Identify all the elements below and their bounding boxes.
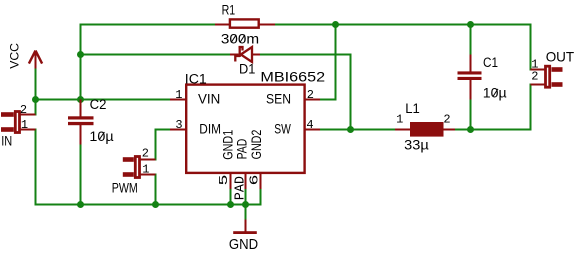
svg-text:IC1: IC1: [185, 72, 207, 87]
svg-text:2: 2: [307, 88, 314, 102]
svg-text:C2: C2: [90, 97, 107, 112]
svg-text:6: 6: [247, 175, 261, 186]
svg-text:D1: D1: [239, 61, 255, 76]
svg-text:DIM: DIM: [199, 122, 221, 137]
svg-text:300m: 300m: [221, 32, 259, 47]
svg-text:1: 1: [142, 162, 149, 176]
svg-text:2: 2: [142, 146, 149, 160]
svg-text:2: 2: [20, 103, 27, 117]
svg-text:5: 5: [217, 175, 231, 186]
svg-text:33µ: 33µ: [404, 137, 429, 152]
svg-text:PAD: PAD: [232, 176, 248, 200]
svg-text:IN: IN: [1, 134, 12, 149]
svg-text:PWM: PWM: [112, 180, 138, 195]
svg-text:R1: R1: [222, 2, 236, 17]
svg-text:1: 1: [396, 112, 403, 126]
svg-text:GND1: GND1: [221, 130, 236, 160]
svg-text:OUT: OUT: [546, 49, 575, 65]
svg-text:2: 2: [531, 69, 538, 83]
svg-text:VIN: VIN: [198, 92, 220, 107]
svg-text:2: 2: [443, 112, 450, 126]
svg-text:1: 1: [175, 88, 182, 102]
svg-text:MBI6652: MBI6652: [260, 70, 325, 85]
svg-text:PAD: PAD: [234, 139, 249, 160]
svg-text:VCC: VCC: [8, 43, 22, 69]
svg-text:3: 3: [175, 118, 182, 132]
svg-text:C1: C1: [483, 55, 498, 70]
svg-text:GND2: GND2: [249, 130, 264, 160]
svg-text:4: 4: [306, 118, 313, 132]
svg-text:L1: L1: [405, 101, 420, 116]
svg-text:GND: GND: [229, 236, 258, 253]
svg-text:SW: SW: [274, 122, 291, 137]
svg-text:1: 1: [21, 118, 28, 132]
svg-text:SEN: SEN: [266, 91, 291, 106]
